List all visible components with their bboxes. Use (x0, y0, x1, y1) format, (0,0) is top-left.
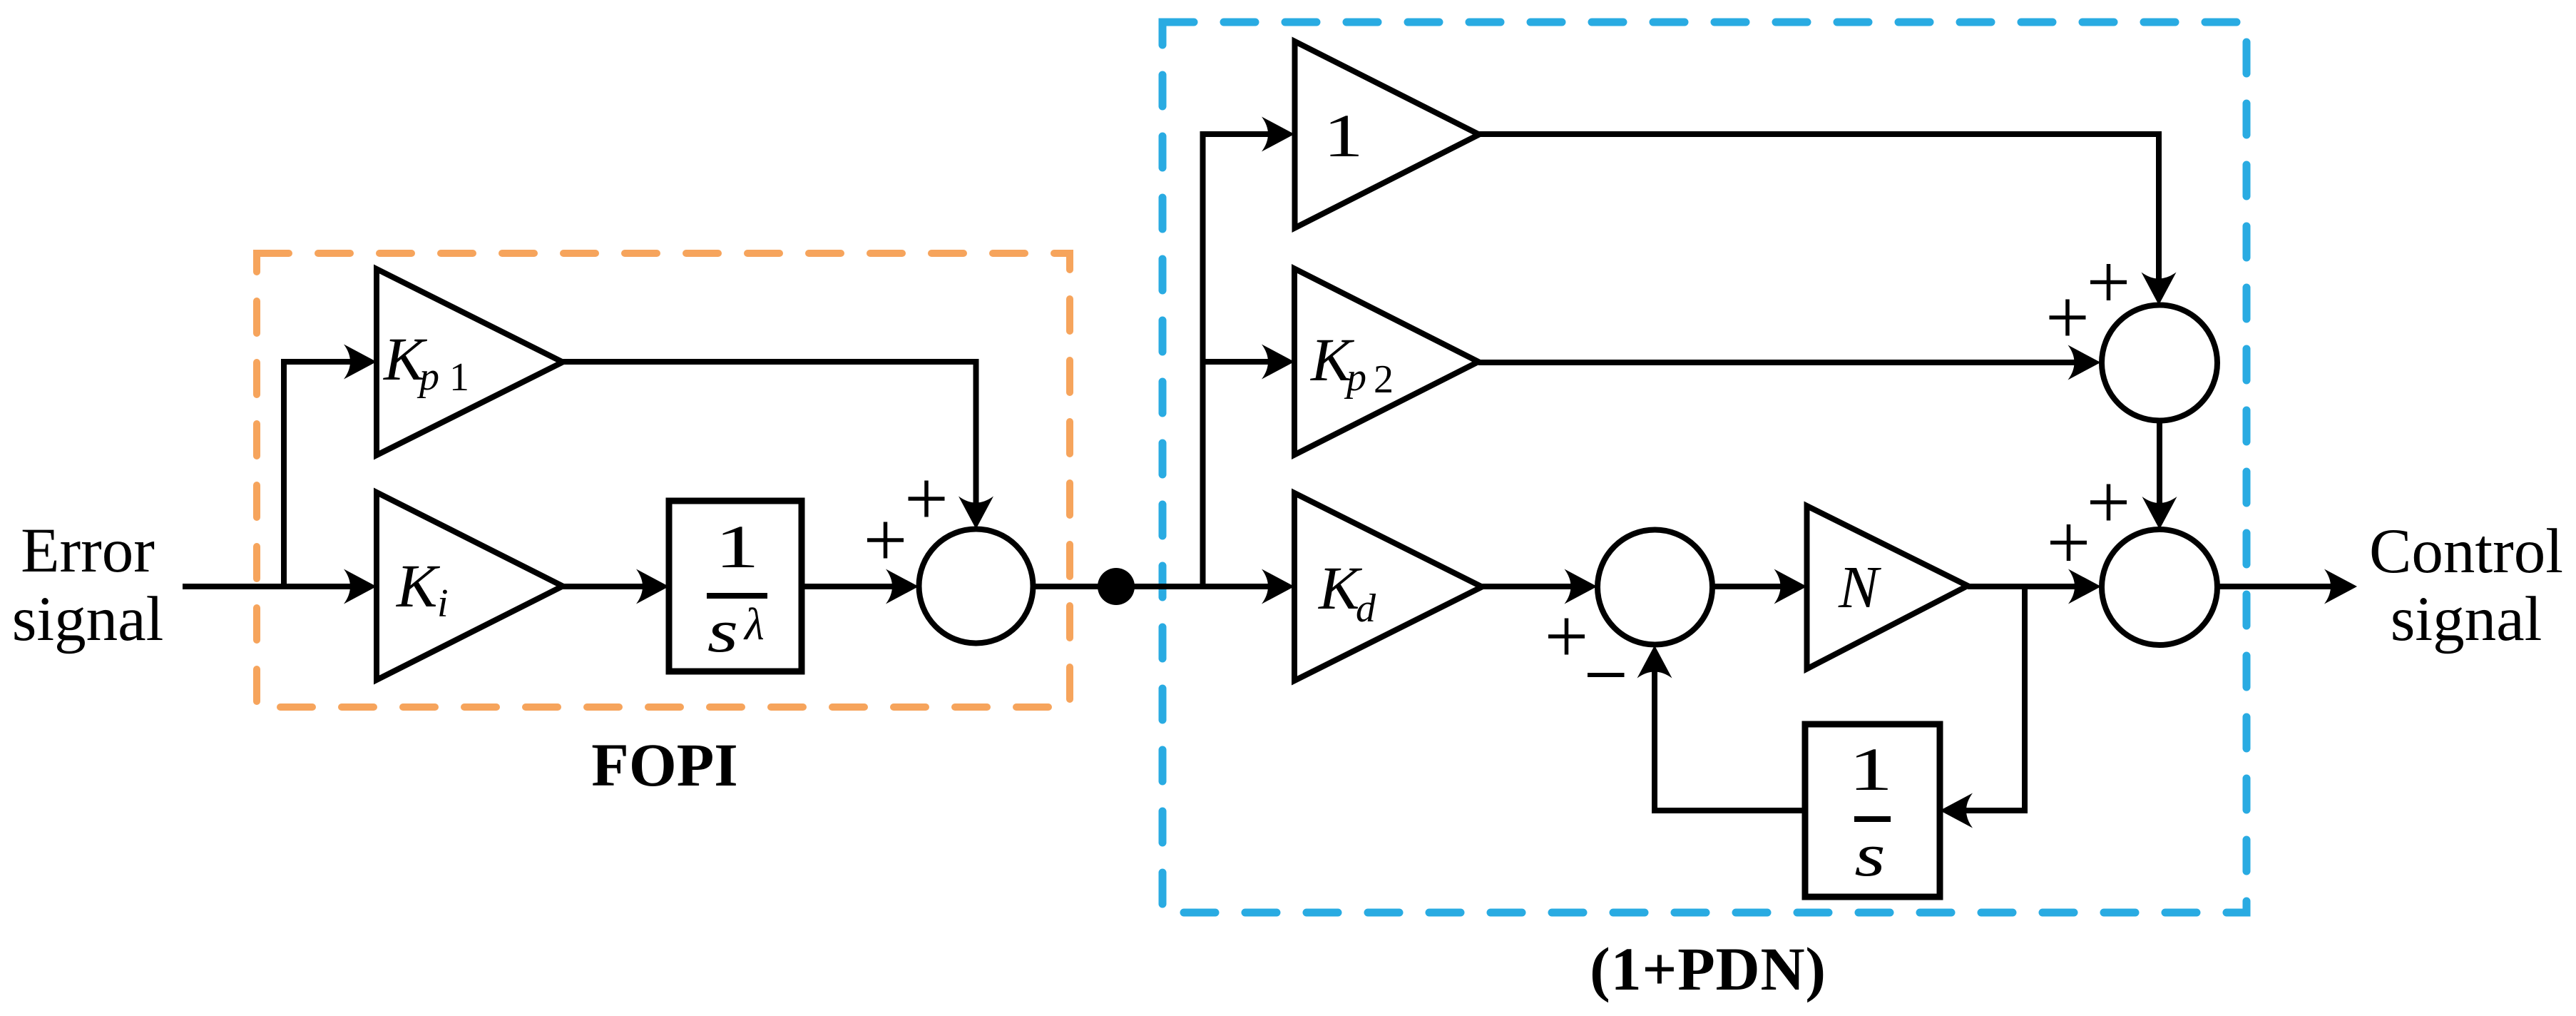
svg-text:FOPI: FOPI (591, 731, 737, 799)
gain block Kp1 (377, 269, 563, 455)
label: Error signal (12, 516, 164, 654)
wire: feedback branch down to 1/s block (1940, 586, 2025, 828)
(1+PDN) dashed boundary box (1162, 22, 2247, 913)
svg-text:(1+PDN): (1+PDN) (1590, 935, 1826, 1003)
wire: riser branch up from node to gain 1 (1203, 117, 1295, 587)
node: junction dot after S1 (1098, 568, 1135, 605)
svg-text:1: 1 (715, 514, 759, 581)
svg-text:K: K (395, 552, 441, 620)
plus sign at S2 top input (2090, 264, 2127, 300)
wire: gain 1 output to summing junction S2 top (1479, 134, 2177, 305)
minus sign at S3 bottom input (1588, 673, 1625, 677)
svg-text:1: 1 (449, 355, 469, 400)
plus sign at S4 top input (2090, 484, 2127, 521)
wire: branch up to Kp1 (284, 345, 377, 587)
svg-text:1: 1 (1324, 101, 1364, 170)
svg-text:Control: Control (2369, 517, 2563, 586)
svg-text:2: 2 (1374, 357, 1394, 402)
svg-text:1: 1 (1849, 736, 1893, 804)
svg-text:λ: λ (743, 599, 765, 649)
svg-text:d: d (1356, 586, 1376, 631)
label: Control signal (2369, 517, 2563, 654)
svg-text:N: N (1838, 554, 1881, 621)
gain block 1 (1295, 41, 1480, 228)
wire: error signal input (183, 569, 377, 604)
plus sign at S2 left input (2050, 300, 2086, 336)
wire: 1/s block output back to summing junction S3 bottom (1637, 646, 1806, 811)
gain block Ki (377, 492, 563, 680)
wire: 1/s^lambda block to summing junction S1 (802, 569, 919, 604)
integrator block 1/s (1805, 724, 1940, 897)
wire: summing junction S2 to summing junction S4 (2142, 420, 2177, 529)
plus sign at S3 left input (1548, 619, 1585, 655)
svg-text:s: s (707, 596, 739, 665)
svg-text:signal: signal (2391, 584, 2542, 654)
svg-text:s: s (1854, 821, 1886, 889)
wire: riser branch to Kp2 (1203, 345, 1295, 380)
wire: control signal output (2217, 569, 2357, 604)
gain block N (1807, 506, 1968, 669)
svg-text:signal: signal (12, 584, 164, 654)
plus sign at S1 top input (909, 481, 945, 517)
svg-text:Error: Error (21, 516, 155, 586)
wire: Ki output to 1/s^lambda block (563, 569, 669, 604)
summing junction S1 (919, 529, 1033, 644)
wire: summing junction S1 output to Kd (1033, 569, 1295, 604)
gain block Kp2 (1294, 269, 1478, 455)
svg-text:p: p (416, 355, 439, 399)
summing junction S4 (output) (2102, 529, 2217, 645)
gain block Kd (1294, 493, 1482, 681)
wire: Kd output to summing junction S3 (1482, 569, 1598, 604)
summing junction S3 (derivative loop) (1598, 530, 1712, 645)
svg-text:i: i (437, 581, 449, 626)
svg-text:p: p (1344, 355, 1366, 400)
wire: N output to summing junction S4 (1968, 569, 2101, 604)
plus sign at S4 left input (2050, 524, 2087, 561)
summing junction S2 (upper) (2102, 305, 2217, 421)
wire: summing junction S3 output to N (1713, 569, 1807, 604)
wire: Kp1 output to summing junction S1 top (563, 362, 993, 529)
FOPI dashed boundary box (257, 253, 1070, 707)
integrator block 1/s^lambda (669, 501, 802, 671)
wire: Kp2 output to summing junction S2 (1478, 345, 2101, 380)
plus sign at S1 left input (867, 522, 904, 559)
